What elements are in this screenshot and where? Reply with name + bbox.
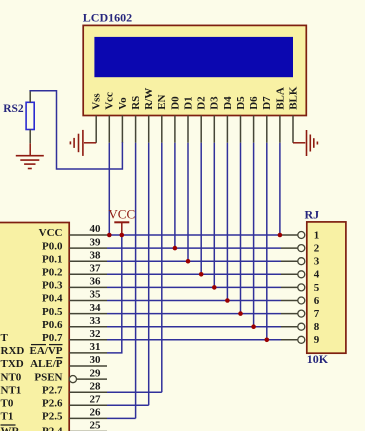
svg-text:P0.4: P0.4 (42, 293, 63, 305)
wire Vss to ground (84, 142, 96, 144)
wire RS2 top to LCD Vo pin (30, 91, 122, 169)
svg-text:Vcc: Vcc (104, 92, 116, 110)
svg-text:P0.6: P0.6 (42, 319, 63, 331)
junction (107, 233, 112, 238)
left pin label NT0 of MCU (1, 371, 22, 383)
svg-text:ALE/P: ALE/P (30, 358, 63, 370)
label RJ (305, 207, 320, 221)
junction (212, 285, 217, 290)
wire P0 bus row pin 36 to RJ pin 5 (107, 286, 281, 288)
svg-text:33: 33 (90, 315, 102, 327)
pin number 3 of RJ (314, 256, 320, 268)
svg-text:27: 27 (90, 394, 102, 406)
left pin label NT1 of MCU (1, 384, 22, 396)
wire LCD R/W down to P2.6 row (148, 143, 150, 406)
pin 2 Vcc of LCD1602 (104, 92, 116, 143)
svg-text:P0.3: P0.3 (42, 280, 63, 292)
wire LCD D2 down to P0.2 row (200, 143, 202, 274)
pin 7 of RJ (281, 310, 305, 317)
pin number 2 of RJ (314, 243, 320, 255)
pin 16 BLK of LCD1602 (287, 86, 299, 143)
junction (251, 324, 256, 329)
svg-text:T1: T1 (1, 411, 14, 423)
pin 8 of RJ (281, 323, 305, 330)
svg-text:P0.7: P0.7 (42, 332, 63, 344)
svg-text:T0: T0 (1, 398, 14, 410)
svg-text:39: 39 (90, 236, 102, 248)
ground (right of LCD, BLK) (307, 130, 318, 156)
wire LCD Vcc down to VCC net (row 40) (108, 143, 110, 235)
LCD module U1 LCD1602 body (83, 25, 306, 115)
pin number 1 of RJ (314, 229, 320, 241)
left pin label TXD of MCU (1, 358, 24, 370)
pin 11 D4 of LCD1602 (222, 96, 234, 143)
pin 9 of RJ (281, 336, 305, 343)
svg-text:RS2: RS2 (3, 103, 24, 115)
pin number 9 of RJ (314, 334, 320, 346)
pin number 7 of RJ (314, 308, 320, 320)
pin 38 P0.1 of MCU (42, 249, 107, 265)
svg-text:P2.7: P2.7 (42, 384, 63, 396)
pin 10 D3 of LCD1602 (209, 96, 221, 143)
wire P0 bus row pin 34 to RJ pin 7 (107, 313, 281, 315)
svg-text:3: 3 (314, 256, 320, 268)
pin 29 PSEN of MCU (34, 367, 107, 383)
junction (173, 246, 178, 251)
svg-text:D5: D5 (235, 96, 247, 110)
MCU U2 (8051) body, partially visible (0, 223, 69, 431)
svg-text:D1: D1 (182, 96, 194, 109)
label RS2 (3, 103, 24, 115)
svg-text:30: 30 (90, 354, 102, 366)
pin 28 P2.7 of MCU (42, 380, 107, 396)
junction (199, 272, 204, 277)
svg-text:NT1: NT1 (1, 384, 22, 396)
overline WR on left pin 25 (1, 424, 16, 426)
wire P0 bus row pin 39 to RJ pin 2 (107, 247, 281, 249)
pin number 8 of RJ (314, 321, 320, 333)
left pin label T of MCU (1, 332, 9, 344)
svg-text:P2.5: P2.5 (42, 411, 63, 423)
svg-text:R/W: R/W (143, 88, 155, 110)
junction (265, 338, 270, 343)
svg-text:6: 6 (314, 295, 320, 307)
svg-text:9: 9 (314, 334, 320, 346)
svg-text:5: 5 (314, 282, 320, 294)
wire LCD D3 down to P0.3 row (213, 143, 215, 288)
svg-text:25: 25 (90, 420, 102, 431)
wire P0 bus row pin 40 to RJ pin 1 (107, 234, 281, 236)
pin 35 P0.4 of MCU (42, 289, 107, 305)
svg-text:Vo: Vo (117, 97, 129, 110)
svg-text:T: T (1, 332, 9, 344)
junction (225, 298, 230, 303)
svg-text:10K: 10K (307, 352, 329, 366)
svg-text:D3: D3 (209, 96, 221, 110)
ground (below RS2) (16, 156, 44, 169)
svg-text:36: 36 (90, 276, 102, 288)
svg-text:28: 28 (90, 380, 102, 392)
overline P on pin 30 (56, 357, 63, 359)
value 10K (307, 352, 329, 366)
pin 27 P2.6 of MCU (42, 394, 107, 410)
wire LCD D1 down to P0.1 row (187, 143, 189, 261)
wire LCD EN down to P2.7 row (161, 143, 163, 392)
svg-text:BLK: BLK (287, 86, 299, 110)
svg-text:34: 34 (90, 302, 102, 314)
svg-text:LCD1602: LCD1602 (83, 10, 132, 24)
pin 14 D7 of LCD1602 (261, 96, 273, 143)
wire LCD D4 down to P0.4 row (226, 143, 228, 301)
left pin label WR of MCU (1, 426, 21, 431)
svg-text:D2: D2 (196, 96, 208, 110)
junction (278, 233, 283, 238)
wire BLK to ground (293, 142, 305, 144)
pin number 6 of RJ (314, 295, 320, 307)
svg-text:29: 29 (90, 367, 102, 379)
wire P0 bus row pin 33 to RJ pin 8 (107, 326, 281, 328)
pin 5 of RJ (281, 284, 305, 291)
pin 4 of RJ (281, 271, 305, 278)
pin 33 P0.6 of MCU (42, 315, 107, 331)
svg-text:P0.0: P0.0 (42, 240, 63, 252)
svg-text:1: 1 (314, 229, 320, 241)
wire P0 bus row pin 38 to RJ pin 3 (107, 260, 281, 262)
pin 5 R/W of LCD1602 (143, 88, 155, 143)
pin 3 of RJ (281, 258, 305, 265)
overline EA and VP on pin 31 (31, 344, 63, 346)
svg-text:31: 31 (90, 341, 101, 353)
pin 7 D0 of LCD1602 (169, 96, 181, 143)
svg-text:PSEN: PSEN (34, 371, 62, 383)
wire P2.7 to LCD EN (107, 391, 162, 393)
svg-text:RJ: RJ (305, 207, 320, 221)
svg-text:EN: EN (156, 94, 168, 109)
pin 4 RS of LCD1602 (130, 96, 142, 143)
svg-text:38: 38 (90, 249, 102, 261)
svg-text:TXD: TXD (1, 358, 24, 370)
resistor RS2 body (26, 102, 34, 129)
wire ground stem below RS2 (29, 143, 31, 155)
svg-text:8: 8 (314, 321, 320, 333)
svg-text:D4: D4 (222, 96, 234, 110)
pin 1 Vss of LCD1602 (91, 93, 103, 143)
resistor network RJ body (307, 222, 346, 353)
pin 37 P0.2 of MCU (42, 263, 107, 279)
power VCC symbol (108, 206, 135, 235)
label LCD1602 (83, 10, 132, 24)
pin 34 P0.5 of MCU (42, 302, 107, 318)
left pin label T0 of MCU (1, 398, 14, 410)
pin 6 EN of LCD1602 (156, 94, 168, 142)
wire LCD D5 down to P0.5 row (240, 143, 242, 314)
wire LCD BLA down to VCC row (279, 143, 281, 235)
pin 9 D2 of LCD1602 (196, 96, 208, 143)
wire EA/VP up to VCC net (107, 235, 122, 353)
pin 12 D5 of LCD1602 (235, 96, 247, 143)
svg-text:4: 4 (314, 269, 320, 281)
pin 26 P2.5 of MCU (42, 407, 107, 423)
pin 13 D6 of LCD1602 (248, 96, 260, 143)
pin 39 P0.0 of MCU (42, 236, 107, 252)
svg-text:D6: D6 (248, 96, 260, 110)
wire P2.5 to LCD RS (107, 417, 136, 419)
pin 25 P2.4 of MCU (42, 420, 107, 431)
pin 1 of RS2 (top) (29, 91, 31, 103)
wire LCD RS down to P2.5 row (135, 143, 137, 419)
pin 36 P0.3 of MCU (42, 276, 107, 292)
svg-text:P0.2: P0.2 (42, 267, 63, 279)
svg-text:35: 35 (90, 289, 102, 301)
svg-text:RS: RS (130, 96, 142, 110)
wire LCD D0 down to P0.0 row (174, 143, 176, 248)
pin 2 of RS2 (bottom) (29, 130, 31, 144)
svg-text:EA/VP: EA/VP (30, 345, 63, 357)
pin 31 EA/VP of MCU (30, 341, 108, 357)
pin number 4 of RJ (314, 269, 320, 281)
svg-text:26: 26 (90, 407, 102, 419)
pin 6 of RJ (281, 297, 305, 304)
pin 3 Vo of LCD1602 (117, 97, 129, 143)
svg-text:VCC: VCC (108, 206, 135, 221)
svg-text:P0.1: P0.1 (42, 253, 62, 265)
wire LCD D7 down to P0.7 row (266, 143, 268, 340)
svg-text:WR: WR (1, 426, 21, 431)
wire P2.6 to LCD R/W (107, 404, 149, 406)
pin 15 BLA of LCD1602 (274, 87, 286, 143)
wire P0 bus row pin 32 to RJ pin 9 (107, 339, 281, 341)
svg-text:40: 40 (90, 223, 102, 235)
svg-text:BLA: BLA (274, 87, 286, 110)
junction (186, 259, 191, 264)
svg-text:NT0: NT0 (1, 371, 22, 383)
left pin label RXD of MCU (1, 345, 25, 357)
svg-text:32: 32 (90, 328, 102, 340)
svg-text:D0: D0 (169, 96, 181, 110)
pin 2 of RJ (281, 245, 305, 252)
wire P0 bus row pin 37 to RJ pin 4 (107, 273, 281, 275)
junction (120, 233, 125, 238)
LCD screen area (94, 37, 293, 77)
pin 40 VCC of MCU (39, 223, 107, 239)
wire P0 bus row pin 35 to RJ pin 6 (107, 300, 281, 302)
wire LCD D6 down to P0.6 row (253, 143, 255, 327)
svg-text:P0.5: P0.5 (42, 306, 63, 318)
svg-text:7: 7 (314, 308, 320, 320)
ground (left of LCD, Vss) (70, 130, 83, 156)
svg-text:P2.6: P2.6 (42, 398, 63, 410)
svg-text:37: 37 (90, 263, 102, 275)
svg-text:Vss: Vss (91, 93, 103, 110)
svg-text:P2.4: P2.4 (42, 426, 63, 431)
svg-text:VCC: VCC (39, 227, 63, 239)
pin 30 ALE/P of MCU (30, 354, 107, 370)
left pin label T1 of MCU (1, 411, 14, 423)
pin 8 D1 of LCD1602 (182, 96, 194, 142)
svg-text:RXD: RXD (1, 345, 25, 357)
svg-text:D7: D7 (261, 96, 273, 110)
pin number 5 of RJ (314, 282, 320, 294)
pin 32 P0.7 of MCU (42, 328, 107, 344)
svg-text:2: 2 (314, 243, 320, 255)
pin 1 of RJ (281, 232, 305, 239)
junction (238, 311, 243, 316)
